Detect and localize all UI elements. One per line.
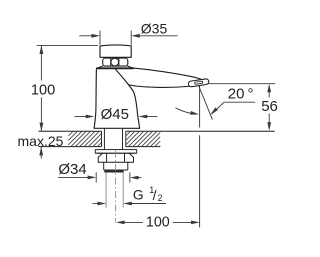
svg-text:56: 56 <box>261 98 278 115</box>
svg-text:Ø35: Ø35 <box>141 20 168 36</box>
svg-text:Ø34: Ø34 <box>58 161 86 178</box>
svg-text:/: / <box>153 187 157 203</box>
svg-text:max.25: max.25 <box>18 133 64 149</box>
svg-text:100: 100 <box>31 82 55 98</box>
svg-text:20 °: 20 ° <box>228 85 254 102</box>
svg-text:Ø45: Ø45 <box>101 106 129 123</box>
svg-text:100: 100 <box>146 214 170 230</box>
svg-text:G: G <box>133 187 144 202</box>
svg-text:2: 2 <box>158 193 163 203</box>
